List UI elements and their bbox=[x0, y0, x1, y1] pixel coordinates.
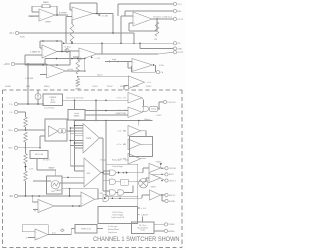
wire ADJ stub bbox=[137, 214, 140, 216]
junction gm out a bbox=[70, 130, 72, 132]
svg-text:COSC: COSC bbox=[92, 86, 98, 88]
svg-text:(x0.6): (x0.6) bbox=[68, 69, 74, 71]
wire U19 fb loop bbox=[22, 223, 48, 225]
op-amp U5 bbox=[79, 48, 97, 60]
svg-text:Light Load Off: Light Load Off bbox=[111, 216, 124, 219]
wire U1 output bbox=[55, 14, 68, 16]
junction U1 output bbox=[56, 14, 58, 16]
arrow U5 out bbox=[91, 56, 93, 58]
svg-text:PGOOD: PGOOD bbox=[167, 102, 176, 104]
junction EN b bbox=[38, 195, 40, 197]
svg-text:AGND: AGND bbox=[168, 230, 175, 233]
comparator U13 bbox=[128, 154, 141, 165]
ramp generator box bbox=[47, 176, 63, 194]
svg-text:VCC: VCC bbox=[177, 4, 182, 6]
wire IN+ to gm bbox=[18, 129, 45, 131]
arrow ladder tap bbox=[24, 166, 26, 168]
svg-text:+ C2 · MB: + C2 · MB bbox=[117, 131, 127, 133]
svg-text:OUT1: OUT1 bbox=[177, 19, 184, 21]
svg-text:SynO: SynO bbox=[97, 74, 103, 76]
wire U6 output bbox=[66, 70, 85, 72]
svg-text:OUT2: OUT2 bbox=[177, 52, 184, 54]
wire U2 noninv in bbox=[66, 16, 72, 18]
wire riser to gm bbox=[39, 136, 41, 148]
wire U5out corner bbox=[127, 62, 129, 69]
wire U8 in top bbox=[78, 76, 129, 78]
diamond symbol bbox=[61, 229, 65, 232]
junction U4 fb a bbox=[42, 40, 44, 42]
wire x134 drop bbox=[133, 33, 135, 43]
op-amp U18 bbox=[81, 192, 95, 207]
junction bus x74.5 bbox=[74, 120, 76, 122]
wire comp4 tip out bbox=[141, 143, 153, 145]
ramp limit block bbox=[68, 110, 85, 121]
junction bus left end bbox=[63, 43, 64, 45]
junction G5 a bbox=[112, 197, 114, 199]
svg-text:1.65/GB: 1.65/GB bbox=[25, 78, 34, 80]
pin BGND bbox=[165, 199, 168, 202]
and gate G3 bbox=[110, 190, 116, 195]
wire U6 fb drop bbox=[44, 59, 46, 65]
junction M2 out bbox=[161, 180, 163, 182]
wire U5 fb drop bbox=[101, 43, 103, 54]
svg-text:Delay: Delay bbox=[151, 109, 156, 111]
svg-text:R-IN: R-IN bbox=[20, 37, 25, 39]
op-amp U7 bbox=[132, 59, 153, 72]
driver M1 bbox=[149, 164, 161, 173]
pin EN bbox=[14, 194, 17, 197]
resistor R8 bbox=[24, 171, 28, 181]
wire VCC to U6 bbox=[15, 63, 47, 65]
svg-text:Vr 1.1V: Vr 1.1V bbox=[43, 159, 50, 162]
wire cs bottom stub bbox=[37, 100, 39, 105]
svg-text:≥ V1 + OT: ≥ V1 + OT bbox=[116, 97, 126, 100]
svg-text:Vr: Vr bbox=[26, 237, 28, 239]
junction U4 fb b bbox=[56, 40, 58, 42]
junction riser top bbox=[95, 100, 97, 102]
wire top bus y120.5 bbox=[75, 120, 153, 122]
wire CIN+ node bbox=[18, 103, 44, 105]
svg-text:+VCC: +VCC bbox=[4, 63, 11, 66]
wire comp2 out bbox=[142, 110, 144, 113]
wire M1 out bbox=[161, 167, 165, 169]
junction pwm2 b bbox=[67, 177, 69, 179]
arrow R2 bottom bbox=[71, 42, 73, 44]
wire vr adj drop bbox=[136, 196, 138, 215]
pwm comparator U16 bbox=[84, 158, 101, 187]
wire ladder link bbox=[25, 142, 27, 154]
svg-text:2nd phase: 2nd phase bbox=[108, 232, 117, 234]
pin PGOOD bbox=[163, 100, 166, 103]
junction comp1 in bbox=[105, 100, 107, 102]
wire U7 feedback bbox=[155, 65, 157, 72]
junction R4 mid bbox=[77, 76, 79, 78]
svg-text:AGND: AGND bbox=[133, 85, 139, 88]
wire comp2 in a bbox=[85, 110, 128, 112]
svg-text:fOSC: fOSC bbox=[157, 115, 162, 117]
svg-text:EN: EN bbox=[10, 195, 14, 198]
pin VCC bbox=[173, 2, 176, 5]
svg-text:VREG: VREG bbox=[120, 86, 126, 88]
vreg block bbox=[75, 225, 97, 234]
resistor R4a bbox=[76, 60, 80, 74]
junction U4 out bbox=[61, 51, 63, 53]
wire G3 G4 links bbox=[116, 192, 118, 194]
wire U17 noninv bbox=[33, 209, 38, 211]
wire U3 feedback loop bbox=[156, 19, 158, 31]
wire G5 out bbox=[110, 197, 142, 199]
junction IN- riser bbox=[39, 147, 41, 149]
pwm comparator U15 bbox=[83, 124, 100, 154]
svg-text:PGND: PGND bbox=[168, 224, 175, 226]
control logic box bbox=[106, 164, 138, 196]
junction x134 y43 bbox=[133, 43, 135, 45]
junction fb riser bbox=[69, 188, 71, 190]
arrow G5 bbox=[104, 197, 106, 199]
current source symbol bbox=[35, 94, 41, 100]
pin PGND bbox=[164, 223, 167, 226]
resistor R2 bbox=[70, 24, 74, 42]
wire U4 output bbox=[57, 51, 70, 53]
wire U19 noninv bbox=[28, 237, 35, 239]
svg-text:GM: GM bbox=[87, 173, 91, 175]
wire U4 noninv bbox=[25, 54, 42, 56]
wire U6 feedback top bbox=[45, 58, 85, 60]
wire to sync box bbox=[142, 217, 144, 223]
pin CB bbox=[156, 71, 159, 74]
junction bus x106 bbox=[105, 120, 107, 122]
junction EN a bbox=[32, 195, 34, 197]
svg-text:RAMP: RAMP bbox=[74, 115, 80, 118]
svg-text:DVDD: DVDD bbox=[50, 102, 56, 104]
junction LDO out bbox=[74, 100, 76, 102]
pin CIN- bbox=[14, 110, 17, 113]
svg-text:C1+: C1+ bbox=[9, 104, 14, 106]
wire fb top U18 bbox=[62, 188, 98, 190]
comparator U9 bbox=[128, 93, 142, 104]
junction EN r bbox=[25, 195, 27, 197]
driver M3 bbox=[150, 190, 161, 200]
wire bus x70.3 down bbox=[69, 128, 71, 166]
wire U8 in bottom bbox=[124, 85, 129, 87]
wire LDO out bus bbox=[63, 99, 129, 101]
svg-text:SW1: SW1 bbox=[169, 174, 175, 176]
current source CS1 bbox=[65, 49, 69, 53]
svg-text:VREF: VREF bbox=[45, 22, 51, 24]
junction x121 y43 bbox=[120, 43, 122, 45]
junction U17 out a bbox=[72, 205, 74, 207]
wire pwm2 out bbox=[101, 172, 103, 174]
wire comp3 tip link bbox=[141, 130, 147, 132]
svg-text:RAMP: RAMP bbox=[56, 189, 62, 192]
resistor R1 feedback U1 bbox=[42, 5, 50, 8]
wire U2 out corner down bbox=[112, 14, 114, 34]
wire EN bbox=[18, 195, 81, 197]
junction x66 y33 bbox=[65, 32, 67, 34]
junction U6 fb b bbox=[71, 58, 73, 60]
junction SW bbox=[161, 174, 163, 176]
junction U5 fb drop bbox=[101, 43, 103, 45]
svg-text:IN1+: IN1+ bbox=[8, 130, 13, 132]
junction U17 out b bbox=[79, 205, 81, 207]
pin OUT1 bbox=[173, 17, 176, 20]
svg-text:VD: VD bbox=[177, 43, 180, 45]
junction ladder mid bbox=[25, 129, 27, 131]
junction cs node bbox=[37, 103, 39, 105]
wire into osc bbox=[33, 180, 51, 182]
svg-text:VREG: VREG bbox=[151, 187, 157, 189]
svg-text:CHANNEL 1 SWITCHER SHOWN: CHANNEL 1 SWITCHER SHOWN bbox=[93, 236, 180, 243]
wire delay out bbox=[158, 108, 159, 110]
wire EN drop bbox=[31, 196, 33, 202]
wire U19 out bbox=[48, 234, 71, 236]
junction high wire bbox=[117, 61, 119, 63]
wire from U2 down to bus bbox=[65, 17, 67, 44]
comparator U12 bbox=[128, 139, 141, 150]
wire ramp drop bbox=[55, 170, 57, 176]
wire riser x96 bbox=[95, 100, 97, 120]
junction M1 out bbox=[161, 167, 163, 169]
junction pwm1 a bbox=[70, 140, 72, 142]
svg-text:2 MAIN IN: 2 MAIN IN bbox=[30, 51, 41, 54]
svg-text:Ramp gen: Ramp gen bbox=[112, 159, 121, 161]
junction delay out bbox=[158, 108, 160, 110]
wire M3 branch bbox=[161, 195, 163, 201]
junction pwm1 d bbox=[74, 142, 76, 144]
junction U3 out bbox=[156, 18, 158, 20]
svg-text:SW L1: SW L1 bbox=[169, 195, 176, 197]
pin OUTL1 bbox=[165, 179, 168, 182]
wire U2 feedback top bbox=[70, 2, 97, 4]
wire G1 links bbox=[116, 172, 118, 174]
wire comp2 in b bbox=[85, 114, 128, 116]
junction R2 on bus bbox=[71, 43, 73, 45]
svg-text:PWM: PWM bbox=[86, 138, 91, 140]
svg-text:(ab): (ab) bbox=[125, 159, 129, 161]
phase osc symbol bbox=[139, 179, 148, 188]
wire bus x74.5 down bbox=[74, 120, 76, 171]
wire R5 bottom bbox=[25, 127, 27, 130]
comparator U10 bbox=[128, 107, 142, 118]
junction G1 mid bbox=[123, 172, 125, 174]
pin SWL1 bbox=[165, 193, 168, 196]
wire comp5 out bbox=[141, 158, 147, 160]
resistor R4b bbox=[76, 79, 80, 87]
wire IN- lead bbox=[18, 147, 40, 149]
junction x113 y33 bbox=[112, 32, 114, 34]
wire R8 bottom bbox=[25, 181, 27, 196]
op-amp U17 bbox=[38, 200, 54, 213]
wire gm out bbox=[67, 130, 83, 132]
arrow U2 out node bbox=[99, 14, 101, 16]
wire osc out b bbox=[60, 182, 85, 184]
svg-text:SGND: SGND bbox=[5, 86, 11, 88]
svg-text:Master/Slave: Master/Slave bbox=[108, 228, 119, 231]
or gate G0 bbox=[143, 106, 149, 111]
junction loop bottom b bbox=[56, 64, 58, 66]
junction loop bottom a bbox=[42, 64, 44, 66]
svg-text:(Slave): (Slave) bbox=[144, 119, 151, 121]
wire U1 inverting input bbox=[31, 6, 33, 12]
junction pwm1 b bbox=[70, 127, 72, 129]
wire CS1 to U5 inv bbox=[69, 50, 79, 52]
pin GND2 bbox=[173, 47, 176, 50]
wire sync pin a bbox=[154, 223, 164, 225]
comparator U11 bbox=[128, 126, 141, 137]
and gate G4 bbox=[118, 190, 124, 195]
svg-text:IN 1: IN 1 bbox=[10, 32, 15, 35]
junction U6 fb a bbox=[56, 58, 58, 60]
sync mode block bbox=[132, 222, 155, 234]
svg-text:BGND: BGND bbox=[169, 201, 176, 203]
junction U2 output bbox=[96, 13, 98, 15]
arrow U7 out bbox=[153, 64, 155, 66]
svg-text:VREG Trim: VREG Trim bbox=[81, 228, 91, 230]
pin VCC2 bbox=[11, 62, 14, 65]
pwm1 stubs a bbox=[75, 125, 84, 127]
delay block bbox=[150, 106, 158, 111]
wire U3 input bbox=[121, 15, 133, 17]
wire VCC drop bbox=[27, 64, 29, 90]
junction pwm1 c bbox=[74, 125, 76, 127]
wire loop bottom bbox=[25, 64, 70, 66]
svg-text:Channel (Ch1/Ch2): Channel (Ch1/Ch2) bbox=[66, 98, 84, 100]
svg-text:≈ 1 LSB: ≈ 1 LSB bbox=[100, 15, 108, 18]
junction R4 top bbox=[77, 58, 79, 60]
svg-text:CR: CR bbox=[154, 39, 158, 41]
junction VCC node bbox=[27, 63, 29, 65]
wire U4 inverting bbox=[39, 41, 41, 48]
op-amp U8 bbox=[129, 76, 145, 89]
pin CIN+ bbox=[14, 102, 17, 105]
wire slave drop bbox=[138, 121, 140, 126]
arrow G1a bbox=[118, 171, 120, 173]
wire U18 out bbox=[95, 198, 103, 199]
MCL limit block bbox=[30, 151, 48, 159]
svg-text:ROSC: ROSC bbox=[107, 86, 113, 88]
wire VDRV stem bbox=[160, 165, 162, 168]
wire R7 R8 gap bbox=[25, 164, 27, 167]
driver M2 bbox=[149, 174, 161, 183]
junction bus slave bbox=[138, 120, 140, 122]
wire pwm1 out bbox=[100, 137, 104, 139]
svg-text:Vr: Vr bbox=[34, 210, 36, 213]
wire U1 feedback top bbox=[32, 5, 42, 7]
op-amp U2 bbox=[72, 7, 93, 20]
wire ramp top bbox=[37, 169, 56, 171]
pin OUT2 bbox=[173, 51, 176, 54]
wire CIN- bbox=[18, 111, 26, 113]
junction comp2 in a bbox=[105, 110, 107, 112]
latch box bbox=[121, 179, 128, 185]
junction EN riser bbox=[69, 195, 71, 197]
pin SW1 bbox=[165, 173, 168, 176]
pwm2 stubs bbox=[70, 165, 84, 167]
svg-text:IN1−: IN1− bbox=[8, 148, 13, 150]
svg-text:In Out sync: In Out sync bbox=[108, 225, 118, 228]
pin VD bbox=[173, 42, 176, 45]
wire U2 output bbox=[93, 13, 113, 15]
svg-text:≈ 1 Ω: ≈ 1 Ω bbox=[95, 57, 101, 60]
resistor R7 bbox=[24, 154, 28, 164]
arrow VDRV bbox=[160, 163, 162, 165]
svg-text:FREQ: FREQ bbox=[44, 86, 50, 88]
wire U6 lower input bbox=[40, 74, 47, 76]
svg-text:RAMP: RAMP bbox=[49, 167, 56, 170]
pin IN- bbox=[14, 146, 17, 149]
wire to PGOOD bbox=[158, 102, 160, 109]
svg-text:Control logic: Control logic bbox=[112, 165, 123, 168]
svg-text:= ADJ/T: = ADJ/T bbox=[141, 213, 149, 216]
pin IN1 bbox=[15, 31, 18, 34]
svg-text:Vslope: Vslope bbox=[100, 159, 107, 161]
wire U17 out bbox=[54, 205, 81, 207]
wire vreg right bbox=[97, 228, 103, 230]
wire M2 out bbox=[161, 178, 165, 181]
svg-text:S/H: S/H bbox=[100, 193, 104, 195]
wire U4 feedback top bbox=[40, 40, 62, 42]
gm error amp block bbox=[45, 119, 67, 141]
and gate G1 bbox=[110, 170, 116, 175]
op-amp U1 bbox=[39, 9, 55, 21]
wire U1 noninverting input bbox=[29, 15, 39, 17]
LDO bias block bbox=[43, 94, 63, 106]
junction G5 b bbox=[119, 197, 121, 199]
svg-text:OUTH1: OUTH1 bbox=[169, 168, 177, 170]
svg-text:MCL LIM: MCL LIM bbox=[35, 154, 43, 156]
svg-text:Gm/Gain = Mid Gain: Gm/Gain = Mid Gain bbox=[153, 16, 173, 18]
wire R2 top bbox=[71, 20, 73, 24]
wire high into U7 bbox=[105, 61, 132, 63]
svg-text:(x1): (x1) bbox=[52, 232, 56, 234]
svg-text:≈1 Bias: ≈1 Bias bbox=[64, 45, 72, 48]
wire gnd pin bbox=[140, 48, 173, 50]
wire into chip x28 bbox=[27, 90, 29, 104]
svg-text:A VREF: A VREF bbox=[59, 11, 67, 14]
protection block bbox=[98, 207, 138, 224]
svg-text:GND: GND bbox=[177, 48, 182, 50]
wire G2 links bbox=[116, 181, 121, 183]
junction U6 out node bbox=[84, 70, 86, 72]
wire U3 output bbox=[152, 18, 173, 20]
svg-text:MAIN: MAIN bbox=[43, 1, 49, 4]
wire input bus y33 bbox=[19, 32, 134, 34]
resistor R3 bbox=[155, 22, 159, 36]
wire M3 out bbox=[161, 194, 165, 196]
svg-text:mode: mode bbox=[141, 230, 146, 232]
wire MCL down bbox=[36, 159, 38, 171]
pin AGND2 bbox=[164, 229, 167, 232]
wire osc out a bbox=[62, 176, 84, 178]
junction U6 fb right bbox=[84, 58, 86, 60]
arrow G1b bbox=[126, 171, 128, 173]
pin OUTH1 bbox=[165, 167, 168, 170]
chip boundary dashed box bbox=[3, 90, 183, 248]
pin IN+ bbox=[14, 128, 17, 131]
wire gate stubs bbox=[103, 170, 110, 172]
svg-text:C1-: C1- bbox=[9, 112, 13, 114]
resistor R5 bbox=[24, 117, 28, 127]
svg-text:OUTL1: OUTL1 bbox=[169, 180, 177, 182]
svg-text:VDRV: VDRV bbox=[156, 161, 162, 163]
junction CIN node bbox=[27, 103, 29, 105]
arrow high wire bbox=[109, 61, 111, 63]
wire supply line bbox=[118, 3, 173, 5]
wire U5 noninv bbox=[73, 56, 79, 58]
junction IN- ladder bbox=[25, 147, 27, 149]
wire bus y43 to pin VD bbox=[64, 42, 174, 44]
and gate G2 bbox=[110, 179, 116, 184]
